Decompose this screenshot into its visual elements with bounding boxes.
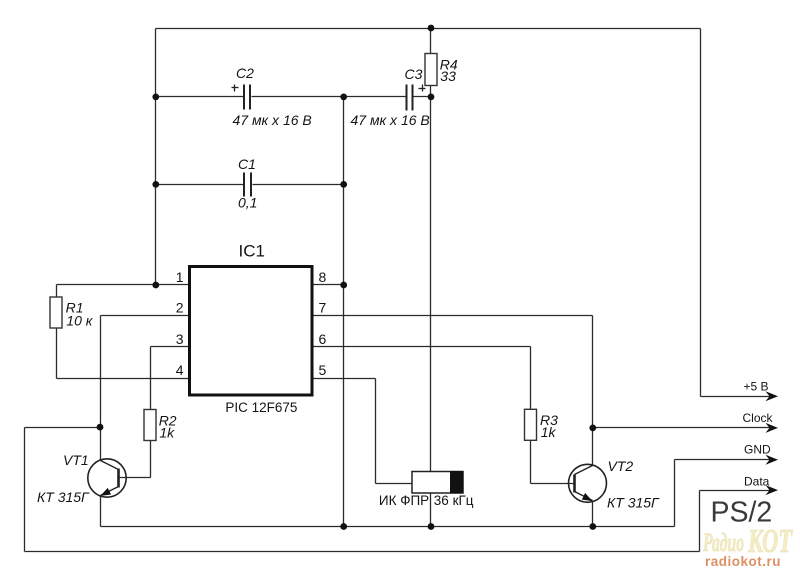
wire R2 bottom lead xyxy=(150,441,152,478)
wire C3 left segment xyxy=(344,96,406,98)
wire pin1 xyxy=(57,284,189,286)
resistor R1 xyxy=(50,297,62,328)
node junction dot ground mid rail xyxy=(340,523,347,530)
capacitor C3 xyxy=(407,85,413,111)
node junction dot pin8 xyxy=(340,282,347,289)
transistor VT1 emitter arrow xyxy=(100,488,111,496)
svg-text:IC1: IC1 xyxy=(239,242,265,261)
transistor Q1 VT1 circle xyxy=(88,459,126,497)
svg-text:5: 5 xyxy=(319,362,327,378)
wire VT1 collector lead xyxy=(100,428,102,461)
svg-text:47 мк x 16 В: 47 мк x 16 В xyxy=(233,112,312,128)
svg-text:8: 8 xyxy=(319,269,327,285)
capacitor C1 xyxy=(244,173,251,197)
wire pin7 vertical to VT2 collector xyxy=(592,316,594,428)
svg-text:radiokot.ru: radiokot.ru xyxy=(705,554,781,569)
svg-text:1k: 1k xyxy=(541,424,557,440)
svg-text:VT1: VT1 xyxy=(63,452,89,468)
wire Data vertical xyxy=(699,491,701,552)
wire pin6 vertical to R3 xyxy=(530,347,532,410)
wire VT2 emitter lead xyxy=(592,502,594,527)
transistor VT1 collector slant xyxy=(101,461,119,470)
svg-text:6: 6 xyxy=(319,331,327,347)
node junction dot pin1 xyxy=(152,282,159,289)
svg-text:1k: 1k xyxy=(159,425,175,441)
wire pin8 xyxy=(314,284,344,286)
wire R4 top lead xyxy=(430,29,432,54)
transistor VT2 emitter arrow xyxy=(582,493,593,501)
transistor VT1 base bar xyxy=(117,469,120,488)
svg-text:C3: C3 xyxy=(405,66,423,82)
capacitor C2 plus sign xyxy=(232,85,239,92)
wire pin3 xyxy=(151,346,189,348)
wire left outer vertical xyxy=(24,428,26,552)
node junction dot C2 left xyxy=(152,94,159,101)
wire ground rail xyxy=(101,526,675,528)
svg-text:КТ 315Г: КТ 315Г xyxy=(37,489,90,505)
wire pin5 to IR receiver output xyxy=(376,483,413,485)
transistor VT1 emitter slant xyxy=(101,487,119,496)
wire C3 right segment xyxy=(414,96,431,98)
node junction dot ground IR xyxy=(428,523,435,530)
wire +5V output xyxy=(701,396,771,398)
transistor VT2 emitter slant xyxy=(575,492,593,501)
wire VT2 collector lead xyxy=(592,428,594,466)
arrow head Data xyxy=(766,485,779,495)
transistor VT2 base bar xyxy=(573,475,576,493)
wire R4 bottom lead to IR receiver xyxy=(430,86,432,472)
node junction dot C1 right xyxy=(340,181,347,188)
wire IR receiver to ground rail xyxy=(430,493,432,527)
wire top rail xyxy=(156,28,701,30)
svg-text:ИК ФПР: ИК ФПР xyxy=(379,493,429,508)
wire bottom outer (Data return) xyxy=(25,551,700,553)
svg-text:0,1: 0,1 xyxy=(238,195,257,211)
svg-text:VT2: VT2 xyxy=(608,458,634,474)
wire R3 bottom lead xyxy=(530,441,532,484)
svg-text:+5 В: +5 В xyxy=(744,380,769,394)
wire VT1 base lead xyxy=(120,477,151,479)
node junction dot C2/C3 mid xyxy=(340,94,347,101)
capacitor C3 plus sign xyxy=(419,85,426,92)
svg-text:3: 3 xyxy=(176,331,184,347)
capacitor C2 xyxy=(244,85,250,110)
svg-text:PIC 12F675: PIC 12F675 xyxy=(225,400,297,415)
arrow head Clock xyxy=(766,423,779,433)
svg-text:36 кГц: 36 кГц xyxy=(434,493,474,508)
wire pin7 xyxy=(314,315,593,317)
node junction dot ground VT2 emitter xyxy=(589,523,596,530)
resistor R3 xyxy=(525,409,537,440)
wire VT2 base lead xyxy=(531,483,574,485)
wire C1 right segment xyxy=(253,184,344,186)
wire R1 bottom lead xyxy=(56,329,58,379)
wire C2 right segment xyxy=(252,96,344,98)
op-amp IC1 box (PIC microcontroller) xyxy=(190,267,313,396)
wire pin5 xyxy=(314,378,376,380)
svg-text:1: 1 xyxy=(176,269,184,285)
node junction dot C3 right / R4 bottom xyxy=(428,94,435,101)
resistor R2 xyxy=(144,410,156,441)
IR receiver module body xyxy=(412,472,463,494)
wire left top rail vertical xyxy=(155,29,157,285)
wire mid rail vertical (caps right) xyxy=(343,97,345,527)
wire Clock output xyxy=(593,427,771,429)
wire GND vertical xyxy=(674,460,676,527)
wire pin5 vertical xyxy=(375,379,377,484)
arrow head GND xyxy=(766,455,779,465)
wire pin6 xyxy=(314,346,531,348)
wire GND output xyxy=(675,459,771,461)
svg-text:Clock: Clock xyxy=(743,411,774,425)
transistor VT2 collector slant xyxy=(575,466,593,475)
wire pin2 vertical to VT1 collector node xyxy=(100,316,102,428)
arrow head +5V xyxy=(766,391,779,401)
node junction dot VT1 collector xyxy=(97,424,104,431)
node junction dot Clock / VT2 collector xyxy=(589,425,596,432)
svg-text:10 к: 10 к xyxy=(66,313,93,329)
svg-text:33: 33 xyxy=(440,68,456,84)
wire pin2 xyxy=(101,315,189,317)
wire pin3 vertical to R2 xyxy=(150,347,152,410)
wire right +5V rail vertical xyxy=(700,29,702,397)
wire C2 left segment xyxy=(156,96,244,98)
svg-text:4: 4 xyxy=(176,362,184,378)
IR receiver black lens part xyxy=(450,471,464,494)
svg-text:7: 7 xyxy=(319,300,327,316)
svg-text:GND: GND xyxy=(744,443,771,457)
wire node A horizontal (VT1 collector to left loop) xyxy=(25,427,101,429)
svg-text:Data: Data xyxy=(744,475,770,489)
svg-text:47 мк x 16 В: 47 мк x 16 В xyxy=(351,112,430,128)
svg-text:C1: C1 xyxy=(238,156,256,172)
wire C1 left segment xyxy=(156,184,244,186)
transistor Q2 VT2 circle xyxy=(569,464,607,502)
wire pin4 xyxy=(57,378,189,380)
node junction dot top R4 xyxy=(428,25,435,32)
wire VT1 emitter lead xyxy=(100,497,102,527)
resistor R4 xyxy=(425,54,437,86)
svg-text:2: 2 xyxy=(176,300,184,316)
svg-text:C2: C2 xyxy=(236,65,254,81)
node junction dot C1 left xyxy=(152,181,159,188)
svg-text:Радио: Радио xyxy=(702,528,744,557)
svg-text:КТ 315Г: КТ 315Г xyxy=(607,495,660,511)
wire R1 top lead xyxy=(56,285,58,297)
wire Data output xyxy=(700,490,771,492)
